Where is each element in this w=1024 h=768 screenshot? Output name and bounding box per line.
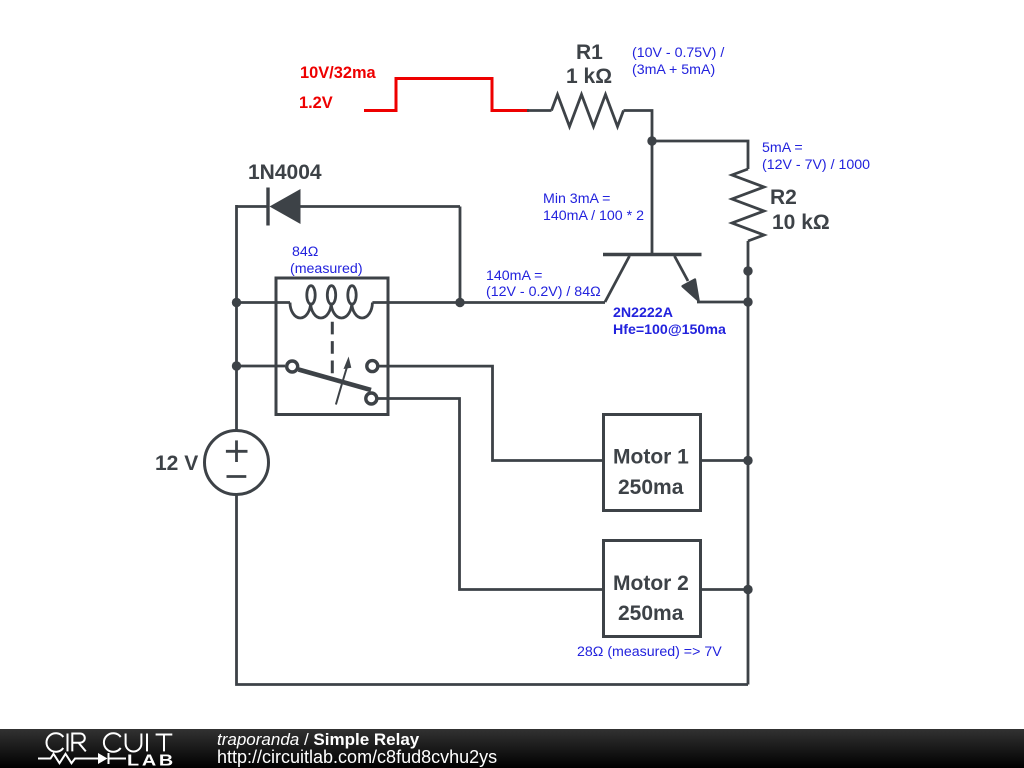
svg-text:250ma: 250ma	[618, 476, 684, 499]
motor M2 box	[604, 541, 701, 637]
svg-text:1 kΩ: 1 kΩ	[566, 65, 612, 88]
svg-text:(12V - 0.2V) / 84Ω: (12V - 0.2V) / 84Ω	[486, 284, 601, 300]
wire Motor 1 to rail	[700, 459, 748, 462]
svg-text:250ma: 250ma	[618, 602, 684, 625]
C	[47, 733, 64, 752]
wire node to R2 top	[652, 141, 748, 169]
svg-text:Min 3mA =: Min 3mA =	[543, 191, 610, 207]
svg-text:http://circuitlab.com/c8fud8cv: http://circuitlab.com/c8fud8cvhu2ys	[217, 747, 497, 767]
base bar	[603, 253, 702, 257]
wire to coil	[237, 301, 291, 304]
svg-text:R1: R1	[576, 41, 603, 64]
switch pole terminal	[287, 361, 298, 372]
node coil right	[455, 298, 464, 307]
svg-text:Hfe=100@150ma: Hfe=100@150ma	[613, 322, 726, 338]
wire diode to coil-right node	[459, 207, 462, 303]
wire collector to relay coil	[460, 301, 605, 304]
svg-text:140mA =: 140mA =	[486, 268, 542, 284]
wire source bottom to ground bus	[237, 495, 749, 685]
svg-text:12 V: 12 V	[155, 452, 198, 475]
collector lead	[605, 256, 630, 302]
node Motor 1	[743, 456, 752, 465]
U	[126, 734, 142, 752]
input square pulse waveform V1	[364, 79, 529, 111]
resistor R1	[552, 95, 624, 127]
CircuitLab logo resistor-diode glyph	[38, 753, 126, 764]
switch motion arrow	[336, 357, 351, 405]
wire coil to node	[372, 301, 460, 304]
right return rail	[747, 302, 750, 685]
diode D1 1N4004	[237, 188, 461, 226]
wire R1 to base node	[624, 111, 653, 142]
resistor R2	[732, 169, 764, 241]
wire switch upper throw to Motor 1	[379, 366, 603, 460]
svg-text:10V/32ma: 10V/32ma	[300, 64, 377, 82]
svg-text:140mA / 100 * 2: 140mA / 100 * 2	[543, 208, 644, 224]
svg-text:LAB: LAB	[127, 751, 176, 768]
svg-text:84Ω: 84Ω	[292, 244, 318, 260]
I	[146, 734, 148, 752]
node emitter junction	[743, 297, 752, 306]
svg-text:(10V - 0.75V) /: (10V - 0.75V) /	[632, 45, 724, 61]
CircuitLab logo wordmark LAB	[127, 751, 176, 768]
wire R2 bottom to rail	[747, 241, 750, 302]
svg-text:Motor 1: Motor 1	[613, 446, 689, 469]
motor M1 box	[604, 415, 701, 511]
svg-text:R2: R2	[770, 186, 797, 209]
wire input to R1	[527, 109, 552, 112]
relay coil L1	[290, 286, 372, 318]
node R2 bottom	[743, 266, 752, 275]
CircuitLab logo wordmark CIRCUIT	[47, 733, 173, 752]
emitter lead with arrow	[675, 256, 689, 281]
node junction at base	[647, 136, 656, 145]
transistor Q1 2N2222A	[603, 255, 702, 303]
wire to switch pole	[237, 365, 286, 368]
C	[104, 733, 121, 752]
svg-text:10 kΩ: 10 kΩ	[772, 211, 830, 234]
switch throw terminal lower	[366, 393, 377, 404]
svg-text:Motor 2: Motor 2	[613, 572, 689, 595]
R	[72, 734, 86, 752]
node Motor 2	[743, 585, 752, 594]
node coil left	[232, 298, 241, 307]
svg-text:(measured): (measured)	[290, 261, 363, 277]
svg-text:1.2V: 1.2V	[299, 94, 333, 112]
wire switch lower throw to Motor 2	[378, 399, 603, 590]
svg-text:2N2222A: 2N2222A	[613, 305, 673, 321]
relay K1 box	[276, 278, 388, 415]
T	[156, 735, 173, 752]
node switch left	[232, 361, 241, 370]
switch throw terminal upper	[367, 361, 378, 372]
relay actuation dashed link	[331, 322, 334, 374]
svg-text:(3mA + 5mA): (3mA + 5mA)	[632, 62, 715, 78]
wire node to transistor base	[651, 141, 654, 254]
svg-text:(12V - 7V) / 1000: (12V - 7V) / 1000	[762, 157, 870, 173]
svg-text:1N4004: 1N4004	[248, 161, 322, 184]
svg-text:28Ω (measured) => 7V: 28Ω (measured) => 7V	[577, 644, 722, 660]
wire emitter to rail	[697, 301, 748, 304]
I	[67, 734, 69, 752]
wire Motor 2 to rail	[700, 588, 748, 591]
svg-text:5mA =: 5mA =	[762, 140, 803, 156]
left supply rail	[235, 205, 238, 431]
switch blade	[299, 370, 372, 391]
voltage source V2 12 V	[205, 431, 269, 495]
